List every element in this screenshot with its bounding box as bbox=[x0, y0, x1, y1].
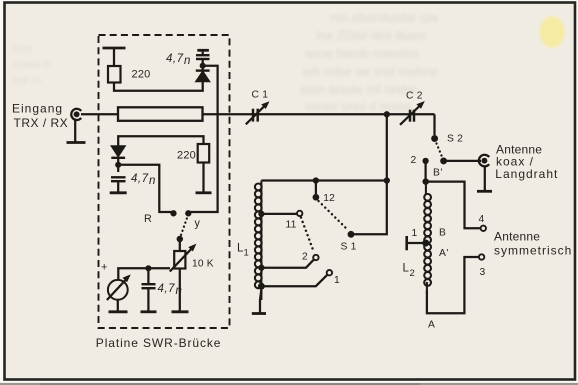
wire tap to contact 11 bbox=[261, 213, 297, 215]
wire C2 junction down to L1 wire bbox=[386, 114, 388, 180]
wire cap meter leads bbox=[147, 268, 149, 284]
connector Eingang center dot bbox=[74, 111, 80, 117]
wire input to main line box bbox=[81, 113, 118, 115]
node junction dot upper detector bbox=[200, 63, 206, 69]
svg-text:R: R bbox=[144, 213, 152, 225]
node L1 tap 1 dot bbox=[258, 283, 265, 290]
terminal 4 circle bbox=[481, 226, 486, 231]
inductor L1 winding bbox=[255, 181, 262, 301]
svg-text:ieh mlbe ae vnd mehne: ieh mlbe ae vnd mehne bbox=[303, 64, 438, 79]
ground L1 bbox=[252, 312, 266, 315]
main line coupler box bbox=[118, 107, 203, 121]
svg-text:B': B' bbox=[433, 168, 443, 179]
svg-text:wroe hlenb rmeulsn: wroe hlenb rmeulsn bbox=[304, 46, 418, 61]
wire tap 1 to terminal bar bbox=[408, 242, 426, 244]
wire contact 1 lever bbox=[261, 275, 327, 287]
ground upper left bbox=[103, 47, 126, 50]
contact 11 circle bbox=[297, 211, 302, 216]
svg-text:nmwr vnel rl nnsm: nmwr vnel rl nnsm bbox=[306, 99, 411, 114]
wire connector shield down bbox=[74, 120, 76, 143]
switch S2 common dot bbox=[431, 135, 438, 142]
diode D2 (cathode bottom) bbox=[111, 146, 125, 157]
switch arm R/y dotted bbox=[181, 219, 187, 236]
svg-text:Antenne: Antenne bbox=[494, 230, 540, 244]
node L1 top right dot bbox=[384, 177, 390, 183]
contact R dot bbox=[170, 210, 176, 216]
ground lower resistor bbox=[196, 191, 212, 194]
capacitor C1 plates bbox=[252, 109, 255, 122]
ground pot bbox=[172, 310, 189, 313]
wire R220 upper to diode anode bbox=[114, 82, 203, 91]
wire L1 top bbox=[261, 179, 386, 181]
wire terminal 3 to A bbox=[427, 257, 479, 313]
capacitor C1 arrow bbox=[246, 106, 264, 124]
svg-text:10 K: 10 K bbox=[192, 259, 214, 270]
svg-text:n: n bbox=[149, 175, 156, 187]
capacitor C2 arrow bbox=[400, 106, 420, 125]
svg-text:C 1: C 1 bbox=[252, 90, 269, 101]
svg-text:L: L bbox=[403, 263, 410, 275]
contact y dot bbox=[185, 210, 191, 216]
svg-text:lne m: lne m bbox=[12, 73, 41, 87]
connector Eingang (coax jack) arc bbox=[71, 109, 81, 120]
svg-text:4,7: 4,7 bbox=[166, 53, 184, 65]
capacitor 4,7n upper bbox=[196, 58, 210, 60]
dashed box Platine SWR-Bruecke bbox=[99, 35, 230, 328]
contact 1 circle bbox=[327, 270, 332, 275]
wire stem to contact 12 bbox=[315, 181, 317, 195]
capacitor 4,7n lower bbox=[111, 176, 126, 178]
wire main line right bbox=[203, 113, 435, 115]
ground lower cap bbox=[110, 191, 127, 194]
wire meter rail bbox=[118, 268, 170, 280]
wire R220 lower to ground bbox=[202, 163, 204, 193]
lower detector top wire bbox=[118, 136, 203, 146]
terminal 1 bar bbox=[405, 236, 408, 250]
wire ground to R 220 upper bbox=[113, 48, 115, 66]
inductor L2 winding bbox=[424, 182, 431, 294]
switch S1 arm dotted 12-S1 bbox=[319, 201, 349, 231]
svg-text:11: 11 bbox=[286, 220, 297, 231]
node B' junction dot bbox=[422, 178, 429, 185]
wire S1 wiper to riser bbox=[351, 181, 387, 235]
svg-text:4: 4 bbox=[479, 214, 485, 225]
ground input bbox=[67, 141, 86, 144]
switch arm dotted 11-2 bbox=[301, 218, 314, 253]
wire pot top bbox=[179, 239, 181, 251]
switch S2 throw dot (koax) bbox=[440, 157, 447, 164]
node junction dot lower detector bbox=[115, 162, 121, 168]
wire diode to node bbox=[202, 60, 204, 70]
wire contact 2 lever bbox=[261, 260, 314, 268]
svg-text:S 1: S 1 bbox=[341, 242, 357, 253]
svg-text:n: n bbox=[184, 55, 191, 67]
svg-text:lne ZDtvl rknl ibaen: lne ZDtvl rknl ibaen bbox=[316, 28, 427, 43]
svg-text:emn bnwle rnl nrebe: emn bnwle rnl nrebe bbox=[300, 82, 418, 97]
svg-text:nm ehnrsluebe rpa: nm ehnrsluebe rpa bbox=[330, 10, 439, 25]
node L1 top / 12 stem dot bbox=[313, 177, 319, 183]
node meter rail dot bbox=[145, 265, 151, 271]
meter M1 circle bbox=[108, 280, 128, 300]
svg-text:Platine SWR-Brücke: Platine SWR-Brücke bbox=[96, 336, 222, 350]
wire B' to terminal 4 bbox=[426, 182, 481, 229]
capacitor 4,7n meter bbox=[142, 283, 156, 285]
node pot top dot bbox=[177, 236, 184, 243]
svg-text:A: A bbox=[428, 320, 435, 331]
ground koax bbox=[477, 190, 492, 193]
wire C2 to S2 bbox=[433, 114, 435, 135]
wire diode to node lower bbox=[117, 158, 119, 172]
diode D1 (anode bottom, cathode top) bbox=[196, 71, 210, 81]
contact 2 circle bbox=[313, 255, 318, 260]
ground cap meter bbox=[141, 310, 157, 313]
bleed-through text top right bbox=[300, 10, 439, 114]
resistor 220 upper bbox=[108, 66, 121, 83]
switch S1 wiper dot bbox=[348, 231, 355, 238]
svg-text:B: B bbox=[439, 228, 446, 239]
yellow highlighter spot bbox=[540, 17, 565, 48]
capacitor C2 plates bbox=[409, 110, 412, 122]
connector koax arc bbox=[479, 155, 489, 167]
node main/C2 junction dot bbox=[384, 111, 390, 117]
wire S2 to koax connector bbox=[444, 160, 481, 162]
bottom scan shadow band bbox=[0, 383, 578, 385]
switch S2 arm dotted bbox=[437, 144, 442, 156]
svg-text:4,7: 4,7 bbox=[158, 283, 176, 295]
wire pot bottom to ground bbox=[179, 269, 181, 312]
contact 12 dot bbox=[313, 194, 320, 201]
wire meter to ground bbox=[117, 300, 119, 312]
svg-text:12: 12 bbox=[323, 193, 335, 204]
wire koax shield down bbox=[484, 167, 486, 192]
bleed-through text left margin bbox=[12, 41, 51, 87]
svg-text:Langdraht: Langdraht bbox=[495, 167, 558, 181]
ground meter bbox=[109, 310, 128, 313]
svg-text:3: 3 bbox=[480, 267, 486, 278]
svg-text:2: 2 bbox=[302, 252, 308, 263]
wire cap to ground upper bbox=[202, 51, 204, 56]
connector koax dot bbox=[481, 158, 487, 164]
svg-text:y: y bbox=[195, 218, 201, 230]
node L1 tap 2 dot bbox=[258, 265, 264, 271]
svg-text:2: 2 bbox=[411, 155, 417, 166]
svg-text:4,7: 4,7 bbox=[131, 173, 149, 185]
svg-text:n: n bbox=[176, 285, 183, 297]
svg-text:rnwel b: rnwel b bbox=[12, 57, 51, 71]
svg-text:220: 220 bbox=[177, 150, 196, 162]
wire node to y contact bbox=[189, 66, 218, 212]
svg-text:+: + bbox=[101, 262, 108, 274]
wire node to R contact bbox=[118, 165, 172, 212]
svg-text:220: 220 bbox=[132, 69, 151, 81]
wire cap to ground lower bbox=[117, 181, 119, 192]
svg-text:TRX / RX: TRX / RX bbox=[14, 116, 69, 130]
handwritten value labels bbox=[131, 53, 191, 297]
resistor 220 lower bbox=[198, 144, 210, 163]
svg-text:1: 1 bbox=[334, 275, 340, 286]
potentiometer 10K body bbox=[174, 251, 185, 269]
potentiometer 10K arrow bbox=[170, 248, 192, 272]
node L2 tap 1 dot bbox=[422, 239, 429, 246]
svg-text:Eingang: Eingang bbox=[12, 102, 63, 116]
svg-text:symmetrisch: symmetrisch bbox=[494, 243, 572, 257]
wire contact 2 to B' bbox=[424, 161, 426, 182]
svg-text:S 2: S 2 bbox=[447, 134, 463, 145]
wire L1 bottom to ground bbox=[260, 289, 261, 313]
svg-text:A': A' bbox=[439, 248, 449, 259]
meter M1 arrow bbox=[107, 280, 126, 301]
svg-text:hne: hne bbox=[12, 41, 32, 55]
ground upper cap bbox=[197, 49, 209, 52]
svg-text:1: 1 bbox=[412, 228, 418, 239]
svg-text:C 2: C 2 bbox=[406, 91, 423, 102]
node L1 tap 11 dot bbox=[258, 211, 264, 217]
svg-text:2: 2 bbox=[410, 268, 416, 279]
svg-text:1: 1 bbox=[244, 248, 250, 259]
terminal 3 circle bbox=[479, 254, 484, 259]
switch S2 contact 2 dot bbox=[422, 158, 428, 164]
